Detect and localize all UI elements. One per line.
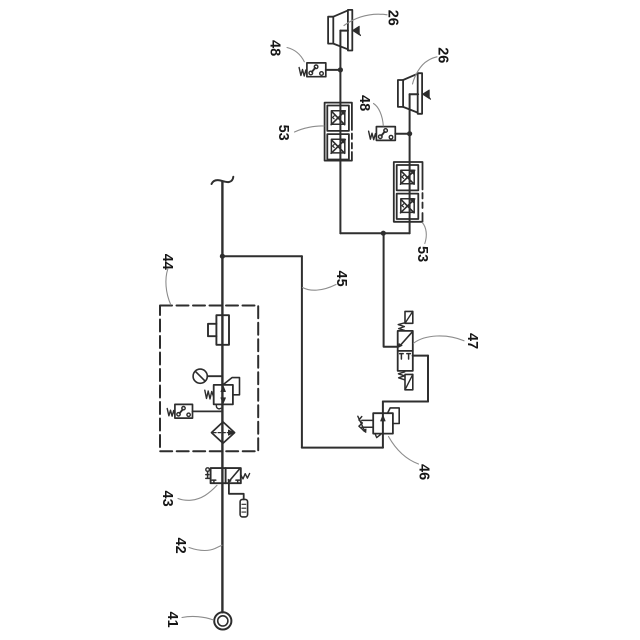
- tee coupling inside box 44: [208, 315, 229, 345]
- silencer: [240, 499, 248, 517]
- outer frame of 53 first: [325, 103, 352, 161]
- leader to valve 43: [178, 485, 217, 500]
- svg-text:41: 41: [164, 612, 180, 628]
- wire: valve 47 right port: [413, 355, 428, 357]
- throttle unit stack 53 (first): [325, 103, 352, 161]
- label 26 (second horn): [413, 47, 451, 84]
- wire: horizontal from corner to under valve 47: [383, 401, 428, 403]
- svg-text:45: 45: [333, 271, 349, 287]
- leader to circle 41: [182, 616, 214, 620]
- wire: vertical through valve 46: [382, 402, 384, 448]
- svg-text:53: 53: [414, 246, 430, 262]
- air source circle 41: [214, 612, 231, 629]
- wire: vertical right of valve 47: [427, 356, 429, 402]
- throttle square 53-2b: [397, 194, 419, 219]
- leader to 53 first: [295, 126, 325, 132]
- wire: line 45 vertical down: [301, 256, 303, 447]
- label 48 (second): [356, 95, 383, 126]
- svg-text:48: 48: [356, 95, 372, 111]
- leader to horn 26 second: [413, 57, 438, 84]
- node: junction at main line and line 45: [220, 254, 225, 259]
- label 53 (first): [275, 125, 324, 141]
- svg-text:47: 47: [464, 333, 480, 349]
- leader to valve 47: [414, 336, 465, 343]
- leader to box 44: [166, 269, 171, 305]
- svg-text:26: 26: [385, 10, 401, 26]
- wire: feed line down from junction to valve 47 left port: [384, 233, 398, 347]
- node: junction branch 2 and valve 48b: [407, 131, 412, 136]
- svg-text:53: 53: [275, 125, 291, 141]
- label 43: [159, 485, 217, 506]
- wire: pressure switch port inside box 44: [193, 410, 223, 412]
- leader to 48a: [287, 48, 304, 62]
- throttle square 53-1a: [327, 106, 349, 131]
- label 46: [389, 437, 432, 481]
- wire: valve 48a port: [326, 69, 341, 71]
- label 41: [164, 612, 214, 628]
- wire: main supply vertical line 42: [221, 182, 223, 613]
- leader to line 45: [303, 285, 337, 291]
- leader to 53 second: [422, 223, 426, 244]
- throttle unit stack 53 (second): [394, 162, 423, 222]
- wire: valve 48b port: [395, 133, 409, 135]
- pressure gauge: [193, 369, 207, 383]
- label 42: [172, 538, 222, 554]
- label 45: [303, 271, 349, 291]
- label 44: [159, 254, 175, 305]
- dashed enclosure box 44: [160, 306, 258, 452]
- label 26 (first horn): [344, 10, 401, 26]
- wire: break squiggle at top of supply line: [212, 177, 234, 184]
- air filter diamond: [212, 422, 235, 443]
- pressure switch inside box 44: [167, 404, 192, 418]
- shutoff valve 43: [206, 468, 250, 483]
- wire: line 45 horizontal from main line: [222, 255, 302, 257]
- wire: branch 2 horn pipe horizontal: [410, 93, 419, 95]
- label 47: [414, 333, 480, 349]
- wire: valve 43 exhaust to silencer: [229, 483, 244, 499]
- pressure switch 48b: [369, 127, 396, 141]
- pressure regulator: [205, 378, 240, 409]
- svg-text:42: 42: [172, 538, 188, 554]
- wire: branch 2 supply vertical: [409, 94, 411, 233]
- wire: branch 1 horn pipe horizontal: [340, 30, 348, 32]
- wire: branch 1 supply vertical: [339, 31, 341, 234]
- horn 26 (second): [398, 73, 431, 114]
- leader to valve 46: [389, 437, 419, 465]
- svg-text:26: 26: [435, 47, 451, 63]
- node: junction on manifold line: [381, 231, 386, 236]
- throttle square 53-2a: [397, 165, 419, 190]
- svg-text:46: 46: [416, 464, 432, 480]
- wire: line 45 bottom horizontal to valve 46: [302, 447, 383, 449]
- directional valve 47: [398, 311, 413, 389]
- pressure relief valve 46: [358, 408, 399, 438]
- svg-text:44: 44: [159, 254, 175, 270]
- throttle square 53-1b: [327, 134, 349, 159]
- wire: gauge link line: [207, 375, 222, 377]
- leader to 48b: [374, 104, 384, 126]
- leader to line 42: [189, 545, 222, 550]
- label 48 (first): [267, 40, 305, 62]
- node: junction branch 1 and valve 48a: [338, 67, 343, 72]
- label 53 (second): [414, 223, 430, 263]
- horn 26 (first): [328, 10, 360, 51]
- svg-text:48: 48: [267, 40, 283, 56]
- pressure switch 48a: [299, 63, 326, 77]
- wire: manifold horizontal line between branches: [340, 232, 409, 234]
- outer frame of 53 second: [394, 162, 423, 222]
- svg-text:43: 43: [159, 491, 175, 507]
- leader to horn 26 first: [344, 14, 387, 25]
